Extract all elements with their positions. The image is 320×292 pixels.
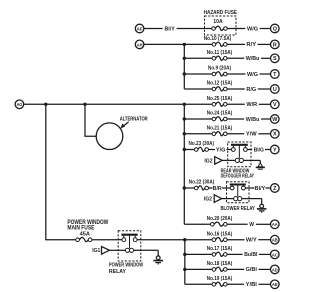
svg-text:U: U (273, 87, 277, 93)
wire row R (227, 43, 245, 45)
svg-text:No.12 (15A): No.12 (15A) (207, 81, 233, 87)
wire to terminal X (258, 133, 270, 135)
fuse fuse No.16 (212, 237, 227, 241)
svg-text:R/G: R/G (246, 87, 256, 93)
wire from hazard fuse (227, 28, 245, 30)
wire to terminal AE (259, 283, 271, 285)
wire row AC (227, 253, 243, 255)
wire power window relay coil to ground (141, 249, 158, 251)
svg-text:B/R: B/R (213, 186, 222, 192)
svg-text:W/Bu: W/Bu (246, 56, 260, 62)
junction bus1 row T (183, 72, 186, 75)
svg-text:POWER WINDOW: POWER WINDOW (109, 263, 143, 269)
svg-text:BLOWER RELAY: BLOWER RELAY (220, 206, 255, 212)
wire to fuse No.17 row AC (185, 253, 212, 255)
wire to fuse No.25 row V (184, 103, 212, 105)
svg-text:IG1: IG1 (92, 248, 100, 254)
terminal T (271, 70, 280, 79)
svg-text:45A: 45A (80, 231, 90, 237)
fuse No.18 (15A) (212, 267, 227, 271)
wire to hazard fuse box (177, 28, 205, 30)
wire row AE (227, 283, 244, 285)
junction AG row / alternator drop (83, 103, 86, 106)
hazard fuse dashed box (205, 16, 237, 35)
wire to alternator (85, 104, 96, 136)
svg-text:R: R (273, 42, 277, 48)
IG2 feed triangle blower (214, 195, 222, 203)
fuse fuse No.22 (194, 186, 208, 190)
wire IG1 to power window relay coil (110, 249, 119, 251)
wire power window relay to fuse No.16 (141, 239, 212, 241)
svg-text:No.21 (15A): No.21 (15A) (207, 126, 233, 132)
wire bus2 to fuse No.23 (184, 149, 194, 151)
wire to fuse No.24 row W (184, 118, 212, 120)
junction power window row / bus 3 (183, 238, 186, 241)
svg-text:IG2: IG2 (204, 196, 212, 202)
fuse No.9 (20A) (212, 72, 227, 76)
fuse power window main fuse 45A (76, 237, 92, 241)
wire to terminal S (261, 57, 271, 59)
wire defogger coil to ground (251, 159, 260, 161)
power window relay contact bar and points (118, 235, 141, 242)
svg-text:No.22 (30A): No.22 (30A) (189, 180, 215, 186)
terminal V (271, 100, 280, 109)
svg-text:AB: AB (272, 238, 278, 243)
svg-text:No.20 (20A): No.20 (20A) (207, 216, 233, 222)
svg-text:AC: AC (272, 252, 278, 257)
wire row W (227, 118, 244, 120)
svg-text:No.17 (15A): No.17 (15A) (207, 246, 233, 252)
svg-text:No.11 (15A): No.11 (15A) (207, 50, 233, 56)
junction AH row / bus 1 (183, 43, 186, 46)
wire row AB (227, 239, 244, 241)
blower relay contact bar and points (227, 185, 250, 190)
svg-text:Y/W: Y/W (246, 132, 257, 138)
wire to terminal Z (266, 187, 271, 189)
bus wire from AH feed down to row U (183, 44, 185, 89)
bus wire 3 down to row AE (184, 240, 186, 285)
alternator pointer arrow (120, 122, 128, 129)
svg-text:R/Y: R/Y (246, 42, 256, 48)
svg-text:W/G: W/G (247, 72, 258, 78)
junction bus2 row Z (183, 186, 186, 189)
fuse No.19 (15A) (212, 282, 227, 286)
wire bus2 to fuse No.22 (184, 187, 194, 189)
wire to fuse No.12 row U (184, 88, 212, 90)
wire row Y (209, 149, 216, 151)
junction AG row / power window drop (44, 103, 47, 106)
wire to terminal T (260, 73, 271, 75)
svg-text:W: W (272, 117, 278, 123)
fuse No.11 (15A) (212, 56, 227, 60)
fuse fuse No.23 (194, 147, 208, 151)
ground blower relay (257, 199, 267, 213)
wire to fuse No.9 row T (184, 73, 212, 75)
terminal AE (271, 280, 280, 289)
terminal U (271, 85, 280, 94)
junction bus2 row V (183, 103, 186, 106)
fuse No.12 (15A) (212, 87, 227, 91)
svg-text:No.19 (15A): No.19 (15A) (207, 276, 233, 282)
wire IG2 to blower coil (222, 198, 227, 200)
wire row X (227, 133, 244, 135)
svg-text:No.18 (15A): No.18 (15A) (207, 261, 233, 267)
terminal Z (271, 184, 280, 193)
wire to fuse No.19 row AE (185, 283, 212, 285)
terminal AF (135, 24, 144, 33)
IG1 feed triangle (102, 247, 110, 255)
junction bus2 row W (183, 117, 186, 120)
wire row AD (227, 268, 244, 270)
wire to terminal AD (259, 268, 271, 270)
terminal AG (15, 100, 24, 109)
svg-text:V: V (273, 102, 277, 108)
wire to fuse No.11 row S (184, 57, 212, 59)
blower relay coil (227, 185, 250, 201)
wire AG drop to power window main fuse (46, 104, 76, 239)
rear window defogger relay coil (228, 145, 251, 163)
wire to terminal W (261, 118, 271, 120)
svg-text:AA: AA (272, 222, 278, 227)
wire to terminal AA (256, 223, 271, 225)
svg-text:10A: 10A (213, 19, 223, 25)
bus wire from AG feed down to row AA (183, 104, 185, 224)
svg-text:AF: AF (137, 26, 143, 31)
terminal AB (271, 235, 280, 244)
svg-text:ALTERNATOR: ALTERNATOR (120, 116, 148, 122)
wire main fuse to power window relay (92, 239, 118, 241)
wire to fuse No.18 row AD (185, 268, 212, 270)
svg-text:No.25 (15A): No.25 (15A) (207, 96, 233, 102)
ground power window relay (153, 250, 163, 264)
svg-text:W/R: W/R (246, 102, 257, 108)
svg-text:Bl/Y: Bl/Y (255, 186, 266, 192)
wire into defogger relay (226, 149, 227, 151)
fuse No.21 (15A) (212, 132, 227, 136)
fuse No.24 (15A) (212, 117, 227, 121)
svg-text:Q: Q (273, 26, 277, 32)
svg-text:Y/G: Y/G (216, 147, 226, 153)
svg-text:X: X (273, 132, 277, 138)
ground defogger relay (256, 160, 265, 169)
wire row U (227, 88, 245, 90)
junction bus1 row S (183, 57, 186, 60)
rear window defogger relay contact bar and points (228, 145, 251, 152)
wire row V (227, 103, 245, 105)
wire out of blower relay (249, 187, 255, 189)
wire to terminal U (258, 88, 271, 90)
terminal Q (271, 24, 280, 33)
fuse No.25 (15A) (212, 102, 227, 106)
svg-text:Y/Bl: Y/Bl (246, 282, 258, 288)
terminal AA (271, 220, 280, 229)
svg-text:AE: AE (272, 282, 278, 287)
svg-text:W: W (249, 222, 254, 228)
svg-text:G/Bl: G/Bl (246, 267, 258, 273)
terminal AD (271, 265, 280, 274)
terminal W (271, 115, 280, 124)
power window relay (dashed case) (118, 231, 141, 261)
wire into blower relay (222, 187, 227, 189)
fuse fuse No.20 (211, 222, 228, 226)
terminal Y (271, 145, 280, 154)
terminal R (271, 40, 280, 49)
alternator circle (96, 123, 123, 150)
blower relay (dashed case) (227, 182, 250, 203)
wire to terminal Y (265, 149, 271, 151)
svg-text:No.24 (15A): No.24 (15A) (207, 111, 233, 117)
svg-text:Bu/Bl: Bu/Bl (244, 252, 258, 258)
fuse hazard fuse 10A (212, 26, 228, 30)
terminal AC (271, 250, 280, 259)
wire row Z (209, 187, 213, 189)
junction bus2 row X (183, 132, 186, 135)
wire to terminal R (258, 43, 271, 45)
terminal S (271, 54, 280, 63)
svg-text:Y: Y (273, 147, 277, 153)
svg-text:RELAY: RELAY (109, 269, 127, 275)
junction bus2 row Y (183, 148, 186, 151)
svg-text:W/Bu: W/Bu (246, 117, 260, 123)
junction bus3 row AC (183, 253, 186, 256)
terminal X (271, 130, 280, 139)
rear window defogger relay (dashed case) (228, 142, 251, 167)
svg-text:No.9 (20A): No.9 (20A) (208, 66, 231, 72)
wire row AA (227, 223, 248, 225)
svg-text:W/G: W/G (247, 26, 258, 32)
wire from terminal AG to bus 2 (24, 103, 185, 105)
svg-text:No.23 (30A): No.23 (30A) (189, 141, 215, 147)
wire row S (227, 57, 244, 59)
svg-text:HAZARD FUSE: HAZARD FUSE (204, 10, 238, 16)
wire from terminal AF (144, 28, 163, 30)
wire to terminal V (259, 103, 271, 105)
svg-text:Bl/Y: Bl/Y (165, 26, 176, 32)
wire to terminal Q (260, 28, 271, 30)
svg-text:AD: AD (272, 267, 278, 272)
svg-text:AH: AH (137, 42, 143, 47)
terminal AH (135, 40, 144, 49)
wire row T (227, 73, 245, 75)
wire inside hazard box left (205, 28, 212, 30)
svg-text:No.16 (15A): No.16 (15A) (207, 231, 233, 237)
wire blower coil to ground (249, 198, 262, 200)
wire to fuse No.21 row X (184, 133, 212, 135)
fuse No.17 (15A) (212, 252, 227, 256)
svg-text:Bl/G: Bl/G (254, 147, 264, 153)
wire bus2 corner to fuse No.20 (184, 223, 210, 225)
fuse fuse No.10 (212, 42, 227, 46)
svg-text:W/Y: W/Y (246, 238, 257, 244)
svg-text:IG2: IG2 (204, 158, 212, 164)
svg-text:No.10 (7.5A): No.10 (7.5A) (204, 36, 232, 42)
wire to terminal AC (259, 253, 271, 255)
svg-text:AG: AG (16, 102, 22, 107)
power window relay coil (118, 235, 141, 253)
wire to terminal AB (258, 239, 270, 241)
wire out of defogger relay (251, 149, 252, 151)
wire IG2 to defogger coil (222, 159, 228, 161)
wire from terminal AH (144, 43, 212, 45)
IG2 feed triangle defogger (215, 157, 223, 165)
svg-text:S: S (273, 56, 277, 62)
junction bus3 row AD (183, 268, 186, 271)
svg-text:DEFOGGER RELAY: DEFOGGER RELAY (221, 174, 255, 180)
